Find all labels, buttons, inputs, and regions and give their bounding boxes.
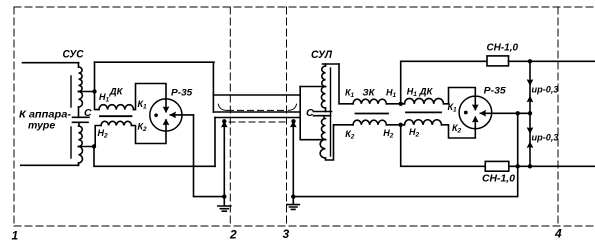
svg-text:С: С bbox=[306, 107, 314, 119]
transformer СУЛ core bbox=[330, 68, 332, 156]
svg-text:Р-35: Р-35 bbox=[171, 87, 193, 98]
svg-text:Н1: Н1 bbox=[386, 88, 397, 100]
wire H2 down to bottom bbox=[401, 125, 486, 167]
arrow down into relay bbox=[163, 107, 168, 112]
current arrows ир-0,3 lower bbox=[527, 128, 532, 133]
svg-text:3: 3 bbox=[283, 227, 290, 241]
relay output right bbox=[480, 112, 530, 114]
choke ЗК winding К1-Н1 bbox=[353, 99, 386, 104]
earth return wire right bbox=[293, 113, 517, 196]
svg-text:ЗК: ЗК bbox=[363, 87, 376, 98]
svg-text:1: 1 bbox=[12, 229, 19, 243]
bus bottom wire to line B bbox=[94, 147, 215, 167]
node Н1 junction dot bbox=[92, 89, 96, 93]
resistor СН-1,0 top bbox=[487, 56, 509, 66]
svg-text:туре: туре bbox=[28, 120, 55, 132]
node Н2 right junction dot bbox=[399, 123, 403, 127]
cable box A bbox=[213, 95, 299, 112]
svg-text:2: 2 bbox=[229, 228, 237, 242]
choke ДК winding Н1-К1 bbox=[99, 105, 133, 110]
choke ДК right winding Н2-К2 bbox=[405, 120, 442, 125]
relay output down to ground bbox=[194, 115, 225, 197]
junction dot earth riser top bbox=[516, 111, 520, 115]
svg-text:С: С bbox=[84, 107, 92, 119]
relay Р-35 left polarity dot bbox=[154, 113, 158, 117]
junction dot bus bottom bbox=[528, 164, 532, 168]
svg-text:К1: К1 bbox=[138, 99, 148, 111]
capacitor С (СУЛ) bbox=[314, 112, 332, 116]
top bus wire left module bbox=[95, 61, 215, 63]
boundary 2 bbox=[229, 7, 231, 226]
wire СУЛ top to К1 tap bbox=[339, 64, 353, 104]
svg-text:Н1: Н1 bbox=[407, 86, 418, 98]
svg-text:ДК: ДК bbox=[109, 87, 124, 98]
wire СУС tap to node Н2 bbox=[79, 146, 95, 148]
relay output arrow from right bbox=[170, 114, 193, 116]
svg-text:4: 4 bbox=[554, 227, 562, 241]
wire to apparatus bottom bbox=[21, 164, 79, 166]
wire H1 up to top bbox=[401, 61, 488, 104]
wire ЗК to ДК bbox=[386, 103, 404, 105]
svg-text:СУЛ: СУЛ bbox=[311, 49, 332, 61]
wire СУС tap to node Н1 bbox=[79, 91, 95, 93]
H2 coil left connection down to node bbox=[95, 126, 101, 147]
wire to apparatus top bbox=[23, 62, 79, 64]
wire К1 to relay top right bbox=[444, 88, 476, 110]
node Н1 right junction dot bbox=[399, 102, 403, 106]
screen dashed bbox=[229, 121, 289, 123]
choke ЗК winding К2-Н2 bbox=[353, 120, 386, 125]
transformer СУС winding lower section bbox=[78, 122, 80, 126]
svg-text:К2: К2 bbox=[345, 129, 355, 141]
transformer СУЛ winding upper section bbox=[325, 64, 327, 66]
wire СУЛ bottom to К2 tap bbox=[326, 125, 354, 160]
svg-text:ДК: ДК bbox=[419, 87, 434, 98]
ground symbol right bbox=[291, 194, 295, 198]
ground symbol left bbox=[222, 194, 226, 198]
svg-text:К2: К2 bbox=[452, 123, 462, 135]
wire К2 to relay bottom right bbox=[442, 117, 476, 138]
choke ДК core bbox=[100, 115, 132, 117]
svg-text:ир-0,3: ир-0,3 bbox=[532, 85, 560, 96]
arrow up into relay bbox=[163, 120, 168, 125]
svg-text:ир-0,3: ир-0,3 bbox=[532, 133, 560, 144]
svg-text:К2: К2 bbox=[138, 121, 148, 133]
bus vertical to H1 coil bbox=[95, 62, 100, 109]
wire cable line A to СУЛ bbox=[300, 86, 325, 88]
bus vertical right bbox=[529, 61, 531, 166]
cable line B bbox=[215, 117, 300, 119]
junction dot bus top bbox=[528, 59, 532, 63]
svg-text:К1: К1 bbox=[345, 87, 355, 99]
dashed conductor with hooks bbox=[218, 104, 226, 110]
svg-text:Н2: Н2 bbox=[409, 127, 420, 139]
transformer СУЛ winding lower section bbox=[323, 116, 325, 119]
wire К1 to relay top bbox=[134, 84, 167, 112]
wire К2 to relay bottom bbox=[132, 120, 166, 144]
transformer СУС core bbox=[70, 76, 72, 158]
transformer СУЛ top bridge wire bbox=[323, 63, 340, 65]
ground lead right (cable) bbox=[291, 119, 295, 123]
choke ЗК core bbox=[356, 113, 389, 115]
current arrows ир-0,3 upper bbox=[527, 80, 532, 85]
transformer СУС winding upper section bbox=[78, 63, 80, 67]
capacitor С (СУС) bbox=[73, 117, 90, 122]
ground lead left (cable) bbox=[222, 119, 226, 123]
svg-text:СУС: СУС bbox=[63, 49, 85, 61]
boundary 4 bbox=[557, 7, 559, 226]
choke ДК right winding Н1-К1 bbox=[405, 98, 444, 103]
choke ДК winding Н2-К2 bbox=[101, 121, 132, 125]
svg-text:Н1: Н1 bbox=[99, 92, 110, 104]
svg-text:СН-1,0: СН-1,0 bbox=[482, 173, 515, 185]
junction dot earth riser bottom bbox=[516, 164, 520, 168]
svg-text:К1: К1 bbox=[448, 102, 458, 114]
relay Р-35 left circle bbox=[150, 99, 182, 131]
junction dot bus relay output bbox=[528, 111, 532, 115]
svg-text:Р-35: Р-35 bbox=[484, 85, 507, 96]
boundary 3 bbox=[286, 7, 288, 226]
node Н2 junction dot bbox=[92, 144, 96, 148]
relay Р-35 right circle bbox=[459, 96, 492, 129]
resistor СН-1,0 bottom bbox=[485, 161, 509, 171]
svg-text:Н2: Н2 bbox=[383, 128, 394, 140]
svg-text:СН-1,0: СН-1,0 bbox=[487, 42, 519, 54]
relay Р-35 right polarity dot bbox=[464, 111, 468, 115]
choke ДК right core bbox=[406, 111, 441, 113]
svg-text:Н2: Н2 bbox=[98, 128, 109, 140]
